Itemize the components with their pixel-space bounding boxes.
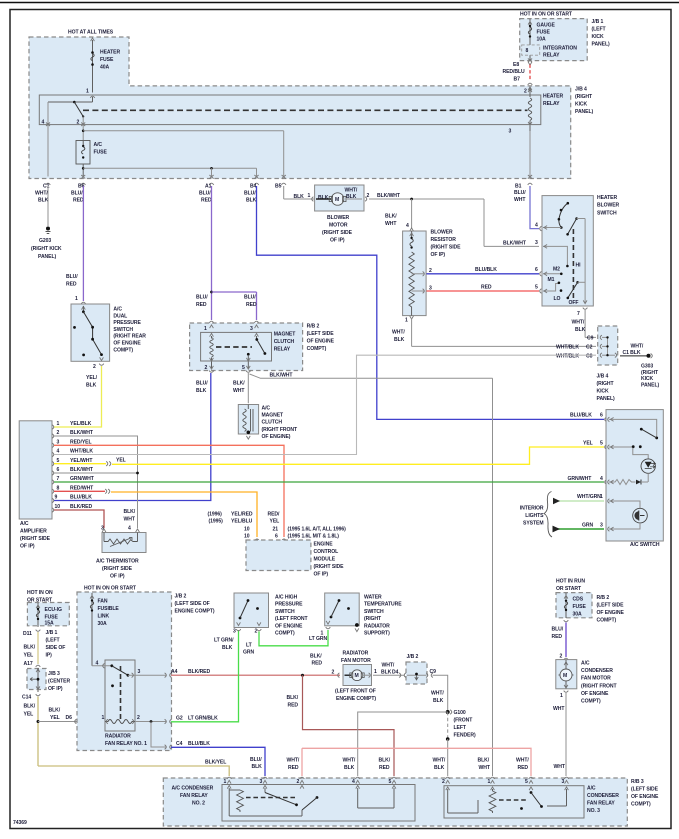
svg-text:1: 1 — [488, 779, 491, 785]
svg-text:RED: RED — [66, 282, 77, 288]
svg-text:RED/: RED/ — [268, 512, 281, 518]
svg-text:(FRONT: (FRONT — [454, 718, 474, 724]
heater relay contact — [48, 97, 528, 118]
heater fuse 40A — [86, 38, 120, 98]
svg-text:J/B 1: J/B 1 — [46, 630, 58, 636]
svg-text:CDS: CDS — [573, 597, 584, 603]
svg-text:D6: D6 — [66, 715, 73, 721]
svg-text:INTERIOR: INTERIOR — [520, 506, 544, 512]
svg-text:7: 7 — [57, 476, 60, 482]
svg-text:WHT/: WHT/ — [433, 758, 446, 764]
svg-text:YEL: YEL — [116, 458, 126, 464]
svg-text:OFF: OFF — [569, 300, 579, 306]
svg-text:BLOWER: BLOWER — [597, 203, 620, 209]
svg-text:(RIGHT KICK: (RIGHT KICK — [31, 246, 62, 252]
svg-text:1: 1 — [224, 779, 227, 785]
svg-text:FAN RELAY: FAN RELAY — [587, 801, 615, 807]
svg-text:RED: RED — [288, 765, 299, 771]
svg-text:4: 4 — [535, 223, 538, 229]
fan fusible link 30A — [90, 593, 119, 666]
svg-text:1: 1 — [102, 715, 105, 721]
svg-text:FUSE: FUSE — [573, 604, 587, 610]
svg-text:WHT/: WHT/ — [631, 344, 644, 350]
wire: branch to B5 (blower feed) — [83, 131, 286, 185]
heater blower switch — [535, 195, 620, 306]
svg-text:D11: D11 — [23, 631, 32, 637]
svg-text:BLK/: BLK/ — [124, 509, 136, 515]
A/C dual pressure switch — [71, 304, 146, 370]
A/C fuse — [76, 141, 107, 185]
svg-text:PRESSURE: PRESSURE — [275, 602, 303, 608]
svg-text:WHT: WHT — [514, 197, 526, 203]
svg-text:C2: C2 — [586, 345, 593, 351]
svg-text:BLK/: BLK/ — [385, 214, 397, 220]
svg-text:RESISTOR: RESISTOR — [431, 237, 457, 243]
svg-text:LT GRN: LT GRN — [309, 636, 328, 642]
wire WHT/RED relay3 pin5 to relay2 pin2 — [287, 748, 532, 776]
svg-text:RED: RED — [312, 661, 323, 667]
svg-text:1: 1 — [308, 193, 311, 199]
svg-text:(LEFT: (LEFT — [592, 27, 607, 33]
svg-text:OF ENGINE: OF ENGINE — [597, 610, 625, 616]
svg-text:WHT/: WHT/ — [382, 663, 395, 669]
svg-text:HOT AT ALL TIMES: HOT AT ALL TIMES — [68, 30, 114, 36]
svg-text:BLU/: BLU/ — [552, 627, 564, 633]
A/C magnet clutch — [238, 405, 298, 440]
svg-text:WHT/: WHT/ — [343, 758, 356, 764]
svg-text:OF IP): OF IP) — [431, 252, 446, 258]
svg-text:J/B 2: J/B 2 — [175, 594, 187, 600]
svg-text:HEATER: HEATER — [543, 94, 563, 100]
ground wire C1 to G203 — [31, 186, 62, 260]
svg-text:2: 2 — [429, 268, 432, 274]
svg-text:2: 2 — [297, 779, 300, 785]
svg-text:1: 1 — [600, 494, 603, 500]
svg-text:BLK/WHT: BLK/WHT — [70, 430, 94, 436]
svg-text:OF IP): OF IP) — [20, 544, 35, 550]
svg-text:A/C SWITCH: A/C SWITCH — [630, 542, 660, 548]
svg-text:BLK/WHT: BLK/WHT — [377, 193, 401, 199]
svg-text:1: 1 — [204, 326, 207, 332]
svg-text:1: 1 — [374, 669, 377, 675]
svg-text:7: 7 — [577, 311, 580, 317]
svg-text:HI: HI — [576, 263, 582, 269]
svg-text:(RIGHT SIDE: (RIGHT SIDE — [322, 230, 353, 236]
svg-text:GRN: GRN — [582, 522, 593, 528]
interior lights system arrows — [520, 492, 604, 538]
wire BLK/RED down to condenser relay pin5 — [287, 675, 395, 776]
svg-text:BLK: BLK — [86, 383, 97, 389]
svg-text:BLU/: BLU/ — [196, 295, 208, 301]
svg-text:40A: 40A — [100, 65, 110, 71]
svg-text:A/C: A/C — [113, 307, 122, 313]
svg-text:2: 2 — [524, 89, 527, 95]
svg-text:NO. 2: NO. 2 — [192, 801, 205, 807]
svg-text:(LEFT FRONT OF: (LEFT FRONT OF — [335, 689, 376, 695]
svg-text:3: 3 — [233, 629, 236, 635]
svg-text:BLK: BLK — [222, 645, 233, 651]
HOT IN ON OR START / ECU-IG fuse (J/B1 lower) — [23, 590, 69, 667]
wire: resistor pin2 BLU/BLK to switch pin6 — [427, 267, 542, 276]
svg-text:(RIGHT: (RIGHT — [575, 94, 593, 100]
svg-text:J/B 3: J/B 3 — [48, 671, 60, 677]
svg-text:15A: 15A — [45, 621, 55, 627]
svg-text:3: 3 — [562, 779, 565, 785]
svg-text:WHT: WHT — [233, 388, 245, 394]
svg-text:A/C: A/C — [20, 521, 29, 527]
wire C4 BLU/BLK down to condenser relay pin3 — [151, 722, 265, 777]
A/C amplifier — [19, 421, 95, 550]
svg-text:(RIGHT FRONT: (RIGHT FRONT — [581, 683, 618, 689]
svg-text:LO: LO — [554, 296, 561, 302]
svg-text:BLK/RED: BLK/RED — [70, 504, 92, 510]
svg-text:WHT/: WHT/ — [431, 691, 444, 697]
svg-text:A/C: A/C — [94, 142, 103, 148]
svg-text:WHT/: WHT/ — [516, 758, 529, 764]
svg-text:OF IP): OF IP) — [110, 574, 125, 580]
svg-text:BLK/WHT: BLK/WHT — [503, 241, 527, 247]
svg-text:8: 8 — [526, 48, 529, 54]
svg-text:RELAY: RELAY — [543, 53, 560, 59]
svg-text:M: M — [335, 197, 339, 203]
wire: relay pin5 BLK/WHT to A/C magnet clutch and ECM rail — [233, 373, 493, 777]
svg-text:BLK: BLK — [38, 198, 49, 204]
svg-text:HOT IN ON: HOT IN ON — [27, 590, 53, 596]
wire: switch pin7 WHT/BLK to J/B4 C9 — [572, 308, 597, 338]
svg-text:(LEFT SIDE: (LEFT SIDE — [597, 603, 625, 609]
svg-text:OF ENGINE): OF ENGINE) — [262, 434, 291, 440]
svg-text:M: M — [563, 673, 567, 679]
svg-text:6: 6 — [535, 267, 538, 273]
svg-text:(1996): (1996) — [208, 512, 223, 518]
svg-text:RED: RED — [518, 765, 529, 771]
svg-text:BLK: BLK — [381, 670, 392, 676]
svg-text:YEL/RED: YEL/RED — [231, 512, 253, 518]
svg-text:RADIATOR: RADIATOR — [105, 734, 131, 740]
svg-text:HOT IN RUN: HOT IN RUN — [556, 579, 585, 585]
svg-text:YEL/BLU: YEL/BLU — [231, 519, 253, 525]
svg-text:4: 4 — [406, 223, 409, 229]
svg-text:SWITCH: SWITCH — [364, 609, 384, 615]
svg-text:MOTOR: MOTOR — [329, 223, 348, 229]
svg-text:GRN: GRN — [243, 650, 254, 656]
wire amp pin2/pin6 BLK/WHT to thermistor pin4 — [54, 436, 139, 528]
svg-text:SUPPORT): SUPPORT) — [364, 631, 390, 637]
svg-text:FUSE: FUSE — [94, 150, 108, 156]
svg-text:BLU/: BLU/ — [199, 191, 211, 197]
svg-text:FUSE: FUSE — [537, 30, 551, 36]
J/B 4 main junction block box (HOT AT ALL TIMES band) — [29, 30, 571, 179]
svg-text:LEFT: LEFT — [454, 725, 467, 731]
svg-text:30A: 30A — [573, 612, 583, 618]
wire amp pin10 BLK/RED to thermistor pin3 — [54, 510, 104, 528]
internals — [559, 203, 568, 227]
svg-text:BLK/: BLK/ — [478, 758, 490, 764]
svg-text:YEL: YEL — [24, 712, 34, 718]
svg-text:OF ENGINE: OF ENGINE — [275, 623, 303, 629]
svg-text:LIGHTS: LIGHTS — [525, 513, 544, 519]
svg-text:C4: C4 — [176, 741, 183, 747]
svg-text:BLK: BLK — [318, 195, 329, 201]
svg-text:2: 2 — [57, 430, 60, 436]
svg-text:(RIGHT: (RIGHT — [641, 370, 659, 376]
wire amp pin4 WHT/BLK up to J/B4 C8 — [54, 355, 596, 454]
svg-text:BLK/: BLK/ — [287, 695, 299, 701]
svg-text:A/C HIGH: A/C HIGH — [275, 595, 298, 601]
condenser fan relay box (R/B 3) — [163, 778, 659, 826]
svg-text:5: 5 — [242, 365, 245, 371]
water temperature switch — [321, 593, 403, 637]
svg-text:8: 8 — [57, 485, 60, 491]
wire B6 BLU/RED down to dual pressure switch — [66, 186, 86, 304]
svg-text:J/B 4: J/B 4 — [597, 374, 609, 380]
svg-text:A4: A4 — [171, 669, 178, 675]
svg-text:OF ENGINE: OF ENGINE — [581, 691, 609, 697]
svg-text:(CENTER: (CENTER — [48, 679, 70, 685]
svg-text:RED/YEL: RED/YEL — [70, 439, 92, 445]
svg-text:(RIGHT: (RIGHT — [364, 616, 382, 622]
svg-text:LT GRN/BLK: LT GRN/BLK — [188, 715, 218, 721]
svg-text:J/B 2: J/B 2 — [407, 654, 419, 660]
svg-text:NO. 3: NO. 3 — [587, 808, 600, 814]
J/B 2 connector D4/C9 — [399, 654, 436, 684]
svg-text:BLK: BLK — [294, 194, 305, 200]
svg-text:BLU/: BLU/ — [514, 190, 526, 196]
svg-text:BLOWER: BLOWER — [327, 215, 350, 221]
svg-text:BLU/BLK: BLU/BLK — [570, 413, 592, 419]
svg-text:M2: M2 — [553, 267, 560, 273]
svg-text:YEL: YEL — [270, 519, 280, 525]
svg-text:YEL/WHT: YEL/WHT — [70, 458, 93, 464]
wire: resistor pin1 WHT/BLK to J/B4 C2 — [392, 318, 596, 346]
svg-text:WHT/BLK: WHT/BLK — [556, 354, 579, 360]
svg-text:(RIGHT: (RIGHT — [597, 381, 615, 387]
svg-text:SWITCH: SWITCH — [597, 210, 617, 216]
svg-text:RADIATOR: RADIATOR — [364, 623, 390, 629]
svg-text:BLK/: BLK/ — [49, 708, 61, 714]
svg-text:GAUGE: GAUGE — [537, 23, 556, 29]
wire B5 to blower motor — [284, 186, 315, 201]
svg-text:30A: 30A — [98, 621, 108, 627]
svg-text:BLU/: BLU/ — [244, 295, 256, 301]
svg-text:BLU/BLK: BLU/BLK — [475, 267, 497, 273]
svg-text:INTEGRATION: INTEGRATION — [543, 46, 577, 52]
svg-text:(1995 1.6L A/T, ALL 1996): (1995 1.6L A/T, ALL 1996) — [288, 527, 347, 533]
svg-text:BLK/: BLK/ — [233, 381, 245, 387]
svg-text:2: 2 — [77, 120, 80, 126]
svg-text:FAN: FAN — [98, 599, 108, 605]
svg-text:ENGINE COMPT): ENGINE COMPT) — [336, 696, 376, 702]
wire WHT/BLK to ground G100 — [431, 675, 476, 776]
svg-text:RED: RED — [201, 198, 212, 204]
engine control module — [246, 540, 344, 578]
svg-text:D4: D4 — [392, 670, 399, 676]
svg-text:RED: RED — [481, 285, 492, 291]
svg-text:B4: B4 — [250, 184, 257, 190]
svg-text:5: 5 — [57, 458, 60, 464]
svg-text:BLK/: BLK/ — [379, 758, 391, 764]
wire: pin4 branch to C1 — [42, 102, 51, 185]
svg-text:CLUTCH: CLUTCH — [274, 339, 295, 345]
svg-text:FUSE: FUSE — [100, 57, 114, 63]
wire amp pin7 GRN/WHT to A/C switch pin4 — [54, 476, 606, 485]
svg-text:10: 10 — [55, 504, 61, 510]
svg-text:1: 1 — [57, 421, 60, 427]
svg-text:6: 6 — [275, 534, 278, 540]
svg-text:G203: G203 — [39, 238, 51, 244]
svg-text:BLU/: BLU/ — [71, 191, 83, 197]
svg-text:RELAY: RELAY — [274, 347, 291, 353]
svg-text:LT GRN/: LT GRN/ — [214, 638, 234, 644]
svg-text:PANEL): PANEL) — [592, 42, 610, 48]
svg-text:RADIATOR: RADIATOR — [343, 651, 369, 657]
wire B4 BLU/BLK down and over to A/C switch pin6 — [257, 186, 607, 422]
svg-text:WHT/BLK: WHT/BLK — [556, 345, 579, 351]
svg-text:4: 4 — [352, 779, 355, 785]
svg-text:5: 5 — [525, 779, 528, 785]
svg-text:ENGINE: ENGINE — [314, 542, 334, 548]
svg-text:MODULE: MODULE — [314, 557, 336, 563]
svg-text:A/C: A/C — [581, 661, 590, 667]
svg-text:COMPT): COMPT) — [275, 631, 295, 637]
svg-text:21: 21 — [273, 527, 279, 533]
svg-text:2: 2 — [442, 779, 445, 785]
wire C1 BLK to ground G303 — [620, 344, 659, 389]
svg-text:GRN/WHT: GRN/WHT — [568, 476, 593, 482]
svg-text:KICK: KICK — [592, 34, 605, 40]
svg-text:RED/WHT: RED/WHT — [70, 485, 94, 491]
A/C switch — [606, 410, 663, 548]
top rule line — [0, 2, 679, 4]
svg-text:G303: G303 — [641, 364, 653, 370]
svg-text:5: 5 — [389, 779, 392, 785]
svg-text:2: 2 — [560, 654, 563, 660]
svg-text:1: 1 — [560, 693, 563, 699]
svg-text:FENDER): FENDER) — [454, 733, 476, 739]
blower resistor — [403, 230, 462, 324]
svg-text:IP): IP) — [46, 653, 53, 659]
svg-text:BLU/: BLU/ — [66, 274, 78, 280]
heater relay coil (right, in J/B4) — [509, 88, 564, 135]
svg-text:BLOWER: BLOWER — [431, 230, 454, 236]
svg-text:OF IP): OF IP) — [314, 572, 329, 578]
svg-text:(RIGHT SIDE: (RIGHT SIDE — [314, 564, 345, 570]
svg-text:YEL: YEL — [50, 715, 60, 721]
svg-text:J/B 4: J/B 4 — [575, 87, 587, 93]
svg-text:A/C: A/C — [587, 786, 596, 792]
svg-text:(LEFT SIDE: (LEFT SIDE — [307, 331, 335, 337]
relay pins wire labels — [343, 758, 566, 772]
svg-text:3: 3 — [57, 439, 60, 445]
svg-text:G100: G100 — [454, 710, 466, 716]
svg-text:RED: RED — [73, 198, 84, 204]
svg-text:R/B 2: R/B 2 — [307, 324, 320, 330]
svg-text:B1: B1 — [515, 184, 522, 190]
svg-text:AMPLIFIER: AMPLIFIER — [20, 529, 47, 535]
svg-text:RED: RED — [196, 302, 207, 308]
svg-text:A1: A1 — [205, 184, 212, 190]
heater relay inner contact box — [39, 95, 541, 125]
svg-text:4: 4 — [42, 120, 45, 126]
svg-text:R/B 2: R/B 2 — [597, 595, 610, 601]
wire B1 BLU/WHT to switch pin4 — [530, 186, 541, 231]
svg-text:4: 4 — [96, 661, 99, 667]
svg-text:BLU/BLK: BLU/BLK — [70, 495, 92, 501]
svg-text:4: 4 — [128, 526, 131, 532]
svg-text:CONDENSER: CONDENSER — [587, 793, 619, 799]
svg-text:B7: B7 — [514, 77, 521, 83]
svg-text:BLK/: BLK/ — [24, 645, 36, 651]
svg-text:BLK: BLK — [344, 765, 355, 771]
svg-text:PANEL): PANEL) — [641, 382, 659, 388]
svg-text:OF IP): OF IP) — [330, 238, 345, 244]
svg-text:BLU/: BLU/ — [250, 757, 262, 763]
svg-text:C9: C9 — [587, 336, 594, 342]
svg-text:B5: B5 — [275, 184, 282, 190]
svg-text:3: 3 — [535, 240, 538, 246]
wire BLU/RED to condenser fan motor — [552, 623, 569, 660]
A/C high pressure switch — [214, 593, 308, 656]
svg-text:RED: RED — [379, 765, 390, 771]
svg-text:BLK/WHT: BLK/WHT — [270, 373, 294, 379]
svg-text:RED: RED — [288, 703, 299, 709]
svg-text:RELAY: RELAY — [543, 101, 560, 107]
svg-text:SWITCH: SWITCH — [113, 327, 133, 333]
svg-text:FAN RELAY NO. 1: FAN RELAY NO. 1 — [105, 741, 147, 747]
integration relay — [522, 45, 540, 55]
svg-text:J/B 1: J/B 1 — [592, 19, 604, 25]
svg-text:WHT: WHT — [553, 706, 565, 712]
A/C condenser fan relay no.3 — [442, 777, 619, 818]
radiator fan relay no.1 box (J/B 2) — [77, 586, 215, 751]
svg-text:RED/BLU: RED/BLU — [503, 69, 525, 75]
svg-text:BLK: BLK — [246, 198, 257, 204]
svg-text:BLK: BLK — [575, 327, 586, 333]
svg-text:(1995): (1995) — [209, 519, 224, 525]
wire: relay output pin2 to A/C fuse — [77, 117, 86, 141]
svg-text:BLK: BLK — [252, 764, 263, 770]
svg-text:PANEL): PANEL) — [597, 396, 615, 402]
svg-text:WHT/: WHT/ — [345, 188, 358, 194]
svg-text:2: 2 — [205, 365, 208, 371]
svg-text:GRN/WHT: GRN/WHT — [70, 476, 95, 482]
svg-text:C9: C9 — [430, 669, 437, 675]
wire YEL/BLK pressure switch to amplifier pin1 — [54, 366, 102, 427]
wire amp pin3 RED/YEL to ECM — [54, 445, 346, 540]
svg-text:HOT IN ON OR START: HOT IN ON OR START — [520, 12, 573, 18]
wire: relay pin2 BLU/BLK down to amplifier pin9 — [54, 373, 211, 501]
wire A4 BLK/RED to radiator fan motor — [165, 654, 340, 678]
svg-text:A17: A17 — [24, 661, 33, 667]
svg-text:KICK: KICK — [641, 376, 654, 382]
svg-text:BLU/: BLU/ — [244, 191, 256, 197]
svg-text:2: 2 — [93, 364, 96, 370]
svg-text:BLK/: BLK/ — [310, 654, 322, 660]
svg-text:3: 3 — [260, 779, 263, 785]
svg-text:3: 3 — [600, 522, 603, 528]
svg-text:MAGNET: MAGNET — [274, 332, 297, 338]
J/B 3 connector (center of IP) — [22, 668, 70, 718]
svg-text:(RIGHT REAR: (RIGHT REAR — [113, 334, 146, 340]
svg-text:RED: RED — [246, 302, 257, 308]
svg-text:BLK/YEL: BLK/YEL — [205, 760, 226, 766]
svg-text:COMPT): COMPT) — [307, 346, 327, 352]
svg-text:OR START: OR START — [556, 586, 582, 592]
svg-text:YEL/: YEL/ — [86, 375, 98, 381]
svg-text:C14: C14 — [22, 695, 31, 701]
svg-text:PANEL): PANEL) — [575, 109, 593, 115]
svg-text:C8: C8 — [586, 354, 593, 360]
